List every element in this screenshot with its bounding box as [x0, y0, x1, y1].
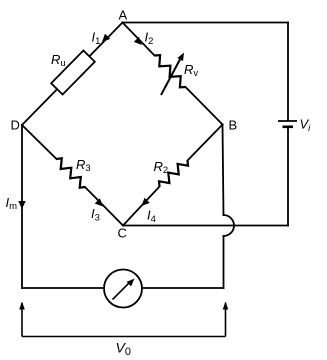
wire bottom-right horizontal (C to right corner): [123, 225, 288, 227]
wire arm R3 to C: [85, 187, 123, 226]
current arrow I2: [134, 37, 142, 45]
svg-text:D: D: [11, 118, 20, 133]
wire hop over bottom wire: [224, 215, 235, 236]
current arrow I3: [95, 198, 103, 206]
battery Vi short plate: [283, 126, 294, 129]
svg-text:I3: I3: [91, 206, 100, 224]
resistor Rv variable arrowhead: [177, 53, 184, 62]
V0 bracket left arrowhead: [19, 302, 25, 310]
resistor Rv variable arrow shaft: [161, 58, 181, 96]
svg-text:A: A: [119, 8, 128, 23]
resistor Ru box: [51, 51, 95, 95]
current arrow Im: [18, 201, 25, 209]
wire hop down to meter wire: [223, 236, 225, 288]
wire arm A to Ru: [89, 23, 123, 57]
wire arm D to R3: [22, 125, 57, 159]
resistor R3 zigzag: [57, 158, 86, 187]
svg-text:I4: I4: [147, 208, 156, 226]
wire B down to hop: [223, 125, 224, 216]
svg-text:Ru: Ru: [51, 52, 66, 69]
wire arm B to R2: [188, 125, 223, 161]
svg-text:B: B: [229, 118, 238, 133]
svg-text:Rv: Rv: [184, 62, 198, 79]
wire arm A to Rv: [123, 23, 155, 56]
wire arm Rv to B: [186, 87, 223, 125]
svg-text:R2: R2: [154, 159, 169, 176]
resistor Rv zigzag: [155, 55, 186, 87]
galvanometer circle: [104, 270, 142, 308]
wire arm Ru to D: [22, 89, 57, 125]
V0 bracket right arrowhead: [223, 302, 229, 310]
svg-text:V0: V0: [116, 340, 131, 359]
galvanometer needle arrowhead: [127, 279, 135, 287]
resistor R2 zigzag: [159, 161, 188, 187]
battery Vi long plate: [278, 120, 297, 122]
wire top A to right corner: [123, 22, 289, 24]
svg-text:Vi: Vi: [300, 117, 312, 135]
wire D down left side: [21, 125, 23, 288]
V0 measurement bracket: [22, 303, 226, 337]
svg-text:R3: R3: [76, 157, 91, 174]
svg-text:I2: I2: [145, 30, 154, 48]
wire meter right: [142, 287, 224, 289]
svg-text:Im: Im: [6, 195, 18, 212]
wire arm R2 to C: [123, 187, 160, 226]
wire meter left: [22, 287, 104, 289]
svg-text:I1: I1: [92, 30, 101, 48]
current arrow I1: [102, 34, 110, 42]
current arrow I4: [142, 198, 150, 206]
galvanometer needle: [113, 282, 131, 300]
wire right side upper (corner to battery): [287, 23, 289, 121]
wire right side lower (battery to bottom corner): [287, 128, 289, 226]
svg-text:C: C: [118, 226, 127, 241]
